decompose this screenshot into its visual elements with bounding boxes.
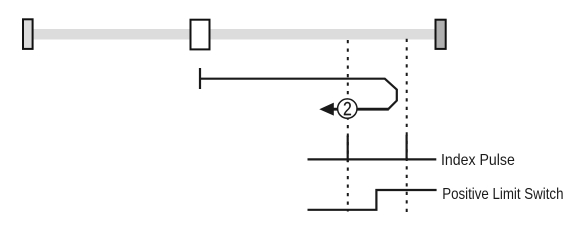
axis rail bar [33,29,435,40]
index pulse baseline [308,158,437,160]
index pulse tick 1 [347,136,349,163]
dashed reference line (limit switch position) [406,39,408,212]
method number 2 [344,102,351,115]
index pulse tick 2 [406,135,408,161]
dashed reference line (index pulse position) [347,40,349,212]
positive limit block [436,20,446,49]
carriage (current position) [191,20,210,50]
negative limit block [23,19,33,49]
motion path outbound [200,79,397,110]
svg-text:Index Pulse: Index Pulse [441,152,515,169]
svg-text:Positive Limit Switch: Positive Limit Switch [442,186,563,203]
motion path return line [333,108,389,111]
positive limit switch waveform [308,190,437,210]
start tick [199,68,201,89]
arrow head [319,103,334,116]
method number circle [338,99,357,118]
